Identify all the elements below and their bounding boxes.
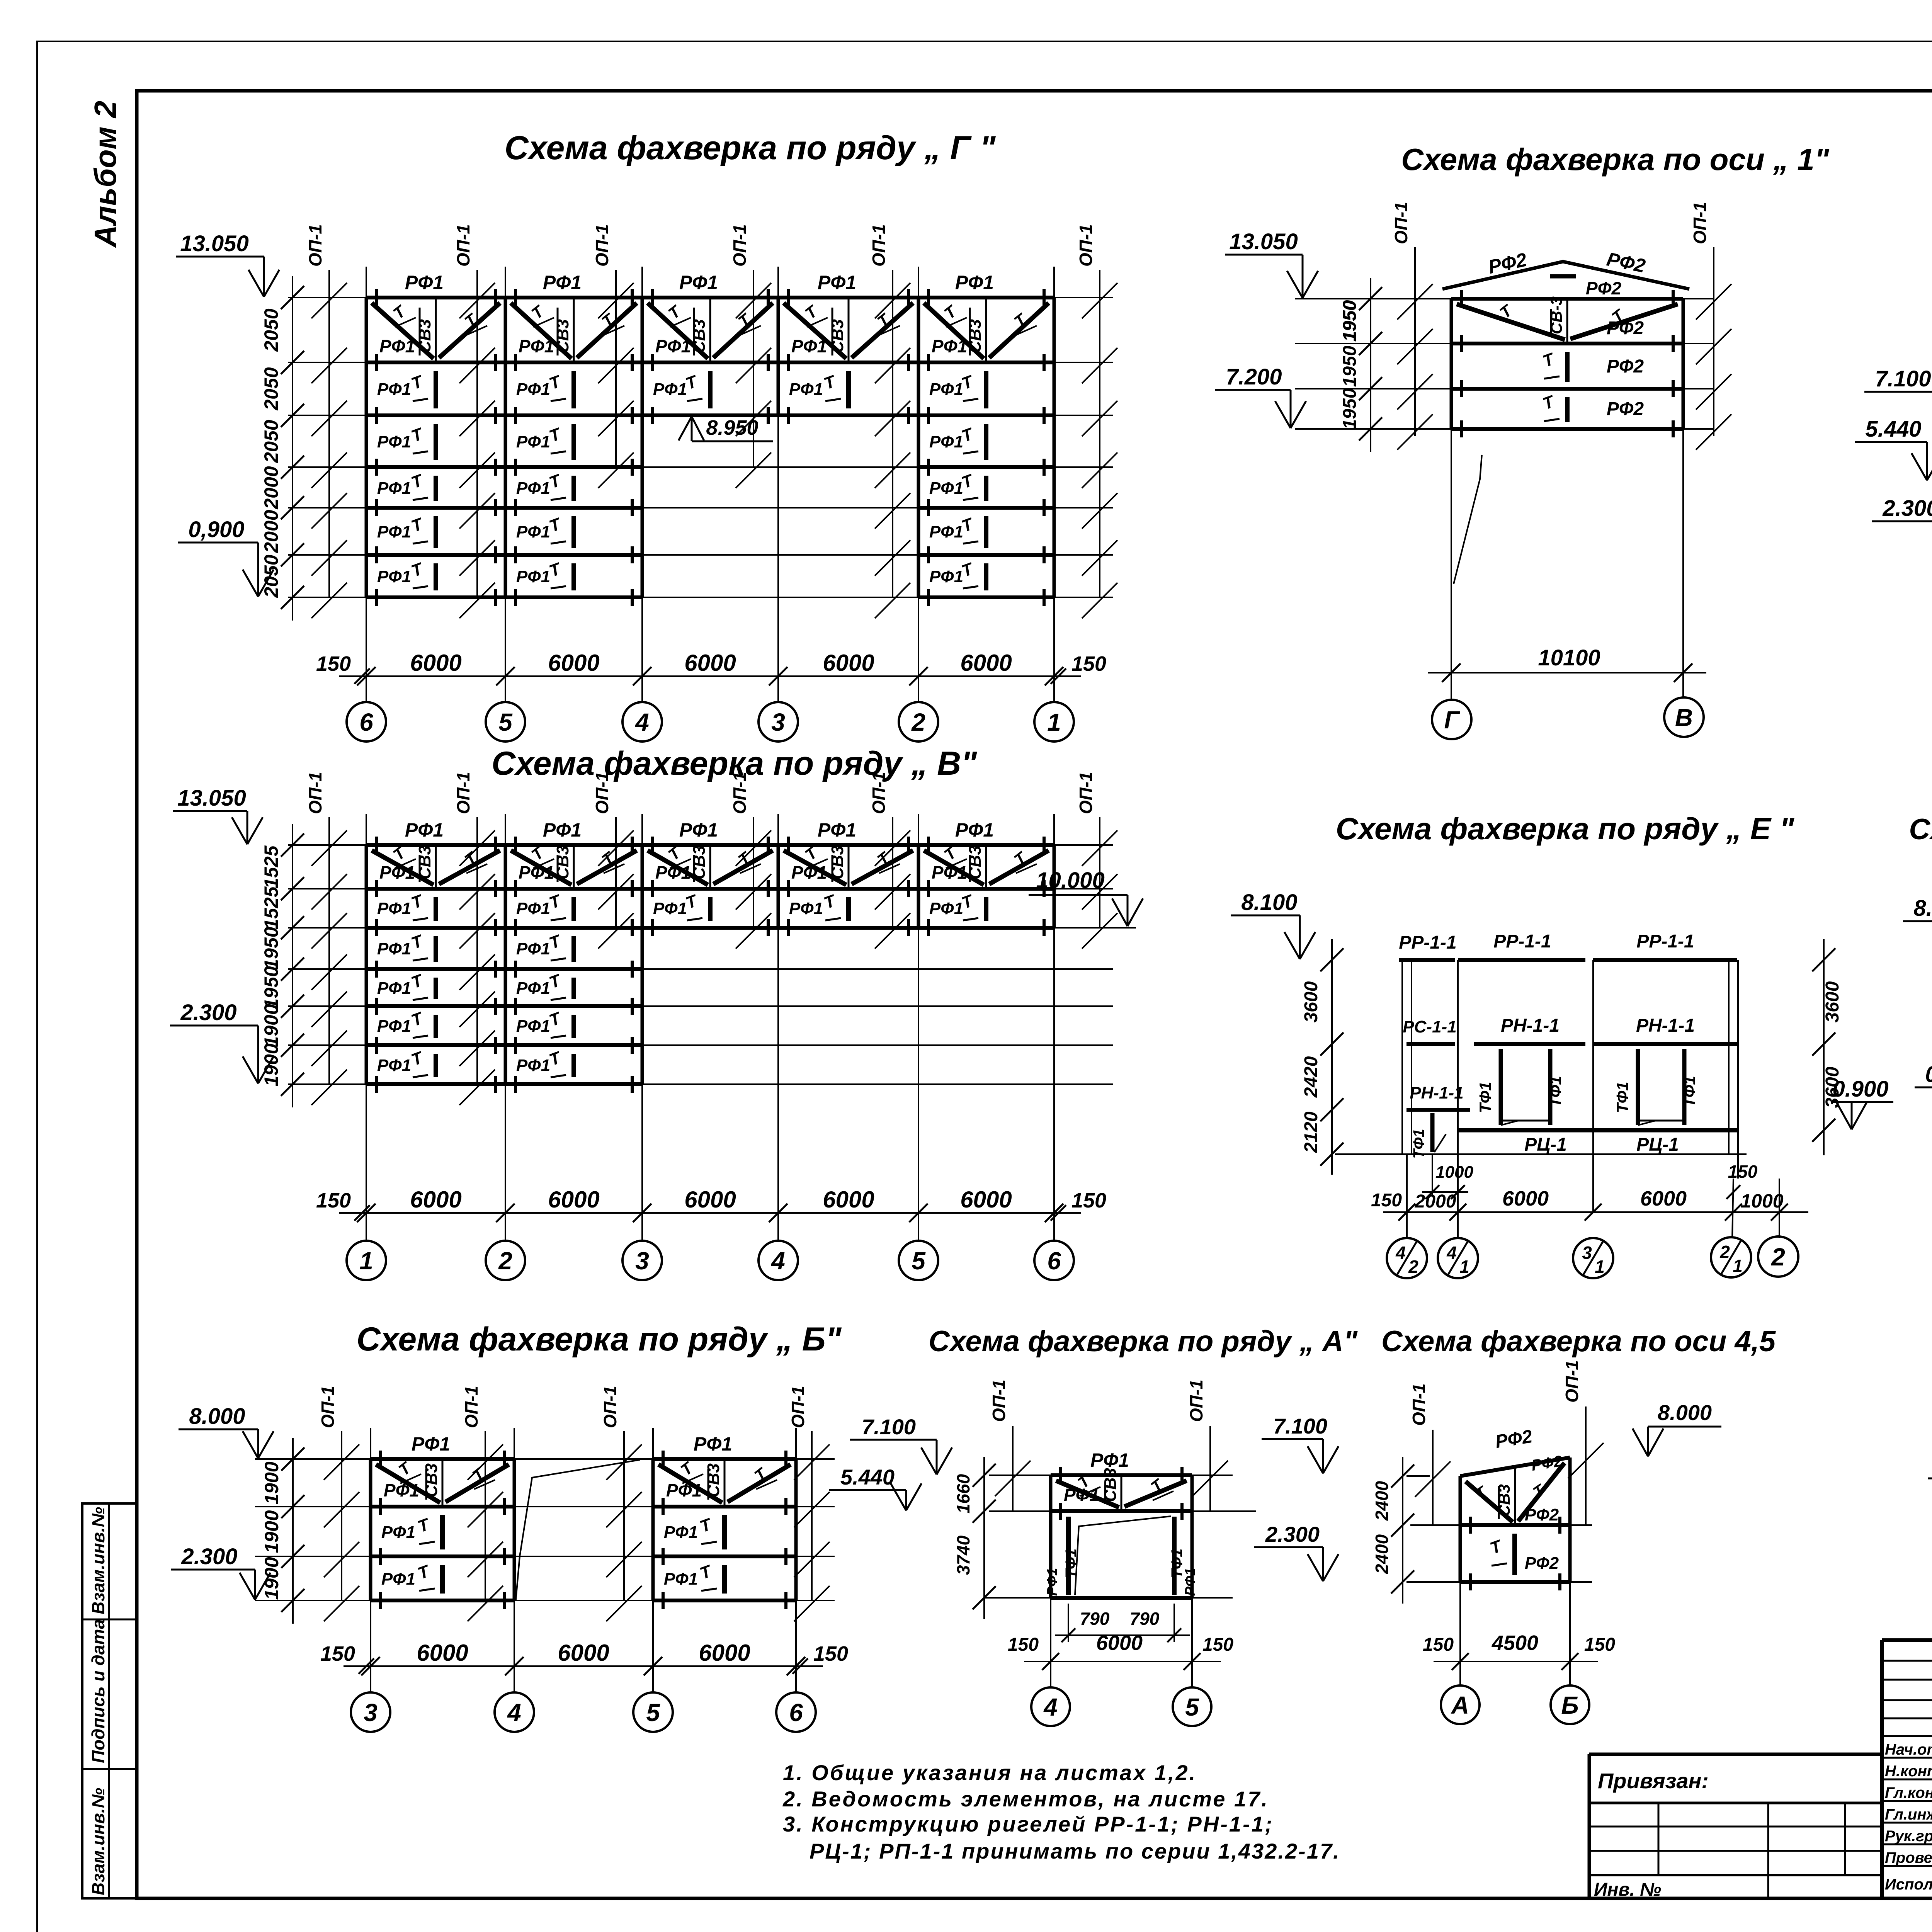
dimension 790 row A — [1068, 1604, 1069, 1642]
node OP-1 column 2 — [476, 270, 478, 597]
svg-text:ОП-1: ОП-1 — [1076, 772, 1096, 814]
svg-text:Взам.инв.№: Взам.инв.№ — [88, 1787, 108, 1895]
svg-text:3600: 3600 — [1822, 1066, 1843, 1108]
node panel bay 6-5 — [365, 298, 368, 597]
svg-text:2120: 2120 — [1301, 1111, 1321, 1153]
wire level lines — [288, 844, 1113, 846]
svg-text:Н.контр.: Н.контр. — [1885, 1763, 1932, 1780]
svg-text:ОП-1: ОП-1 — [461, 1386, 481, 1428]
svg-text:1950: 1950 — [260, 966, 282, 1009]
node panel bay 5-6 — [917, 845, 920, 928]
svg-text:2.300: 2.300 — [180, 1000, 236, 1025]
svg-text:СВ3: СВ3 — [553, 845, 572, 879]
svg-text:РФ1: РФ1 — [653, 899, 687, 918]
svg-text:5: 5 — [498, 708, 513, 736]
node axis 2 — [899, 702, 938, 742]
svg-text:ОП-1: ОП-1 — [453, 224, 473, 267]
svg-text:4: 4 — [1446, 1243, 1457, 1263]
svg-text:1: 1 — [1595, 1257, 1605, 1277]
svg-text:ОП-1: ОП-1 — [305, 224, 325, 267]
dimension bottom line — [339, 675, 1081, 677]
svg-text:Т: Т — [1147, 1475, 1167, 1496]
svg-text:СВ3: СВ3 — [415, 845, 434, 879]
dimension bottom line — [344, 1665, 823, 1667]
svg-text:2050: 2050 — [260, 308, 282, 352]
svg-text:Взам.инв.№: Взам.инв.№ — [88, 1507, 108, 1614]
svg-text:6000: 6000 — [417, 1640, 468, 1666]
node TF1 hangers bay1 — [1499, 1049, 1503, 1125]
svg-text:10.000: 10.000 — [1036, 868, 1104, 893]
svg-text:2000: 2000 — [260, 510, 282, 553]
svg-text:2420: 2420 — [1301, 1056, 1321, 1098]
svg-text:Г: Г — [1444, 706, 1460, 734]
svg-text:5: 5 — [646, 1699, 660, 1726]
svg-text:РФ1: РФ1 — [377, 522, 411, 541]
node OP-1 column 3 — [615, 817, 617, 928]
svg-text:РФ1: РФ1 — [694, 1433, 732, 1455]
node axis 3 — [759, 702, 798, 742]
svg-text:1: 1 — [359, 1247, 373, 1275]
node panel bay 2-3 — [504, 845, 507, 1084]
svg-text:2050: 2050 — [260, 367, 282, 410]
svg-text:РФ1: РФ1 — [377, 432, 411, 451]
svg-text:СВ3: СВ3 — [690, 845, 709, 879]
svg-text:Схема фахверка по оси 4,5: Схема фахверка по оси 4,5 — [1381, 1325, 1776, 1358]
svg-text:РФ1: РФ1 — [655, 862, 691, 883]
dimension left chain — [292, 824, 293, 1107]
svg-text:1900: 1900 — [261, 1510, 282, 1553]
svg-text:РФ1: РФ1 — [929, 432, 963, 451]
svg-text:Т: Т — [461, 848, 481, 869]
dimension left chain — [292, 276, 293, 621]
svg-text:0,900: 0,900 — [188, 517, 244, 542]
node roof RF2 — [1442, 262, 1689, 289]
svg-text:РФ1: РФ1 — [791, 862, 827, 883]
svg-text:РФ1: РФ1 — [384, 1480, 419, 1500]
svg-text:РФ1: РФ1 — [377, 899, 411, 918]
svg-text:РЦ-1: РЦ-1 — [1524, 1134, 1567, 1155]
svg-text:2: 2 — [1408, 1257, 1418, 1277]
svg-text:Схема фахверка по оси 4а: Схема фахверка по оси 4а — [1909, 813, 1932, 846]
svg-text:2050: 2050 — [260, 554, 282, 598]
svg-text:1000: 1000 — [1740, 1190, 1783, 1212]
svg-text:РФ1: РФ1 — [955, 819, 994, 841]
svg-text:РФ1: РФ1 — [381, 1570, 415, 1588]
svg-text:РФ1: РФ1 — [381, 1523, 415, 1542]
node axis 5 — [899, 1241, 938, 1280]
svg-text:РФ1: РФ1 — [405, 819, 444, 841]
node privyazan box — [1589, 1753, 1882, 1756]
svg-text:РР-1-1: РР-1-1 — [1636, 931, 1694, 952]
svg-text:СВ3: СВ3 — [828, 845, 847, 879]
svg-text:1525: 1525 — [260, 845, 282, 888]
node OP-1 column 4 — [753, 270, 754, 467]
svg-text:ТФ1: ТФ1 — [1546, 1076, 1565, 1107]
svg-text:Проверил: Проверил — [1885, 1849, 1932, 1866]
svg-text:4: 4 — [1043, 1693, 1058, 1721]
svg-text:РФ1: РФ1 — [516, 939, 550, 958]
wire level lines — [255, 1458, 835, 1460]
wire axis verticals — [1451, 429, 1452, 699]
node OP-1 column 3 — [623, 1431, 625, 1600]
node beam RC-1 bottom — [1458, 1128, 1737, 1133]
dimension right chain row E — [1823, 939, 1825, 1155]
svg-text:4500: 4500 — [1492, 1631, 1538, 1655]
svg-text:ОП-1: ОП-1 — [318, 1386, 338, 1428]
node axis 3 — [622, 1241, 662, 1280]
svg-text:Т: Т — [874, 848, 894, 869]
svg-text:4: 4 — [634, 708, 649, 736]
svg-text:Гл.инж.пр.: Гл.инж.пр. — [1885, 1806, 1932, 1823]
node panel bay 1-2 — [365, 845, 368, 1084]
svg-text:РФ1: РФ1 — [1044, 1568, 1060, 1596]
node OP-1 column 6 — [1099, 270, 1100, 597]
svg-text:РФ1: РФ1 — [1090, 1449, 1129, 1471]
svg-text:РФ1: РФ1 — [516, 1056, 550, 1075]
svg-text:2. Ведомость элементов, на ли: 2. Ведомость элементов, на листе 17. — [782, 1787, 1269, 1811]
node OP-1 column 1 — [328, 270, 330, 597]
svg-text:13.050: 13.050 — [177, 786, 246, 811]
svg-text:РФ1: РФ1 — [929, 899, 963, 918]
svg-text:7.200: 7.200 — [1226, 364, 1282, 389]
node axis G circle — [1432, 700, 1471, 739]
svg-text:6000: 6000 — [699, 1640, 750, 1666]
svg-text:РЦ-1: РЦ-1 — [1636, 1134, 1679, 1155]
wire break line row A — [1075, 1516, 1171, 1595]
node OP-1 columns axis45 — [1432, 1430, 1434, 1525]
svg-text:ОП-1: ОП-1 — [869, 224, 889, 267]
node panel axis 45 — [1406, 1475, 1430, 1477]
wire axis verticals — [366, 814, 367, 1240]
dimension left chain — [1370, 278, 1371, 452]
svg-text:ТФ1: ТФ1 — [1680, 1076, 1699, 1107]
svg-text:Т: Т — [1540, 392, 1558, 413]
svg-text:6000: 6000 — [823, 650, 874, 676]
svg-text:РФ1: РФ1 — [664, 1570, 698, 1588]
svg-text:Т: Т — [415, 1561, 433, 1583]
svg-text:РФ1: РФ1 — [516, 380, 550, 399]
svg-text:6000: 6000 — [960, 650, 1012, 676]
svg-text:Т: Т — [697, 1515, 715, 1536]
node OP-1 column 1 — [341, 1431, 342, 1600]
svg-text:РФ2: РФ2 — [1525, 1505, 1559, 1524]
node TF1 single — [1430, 1113, 1435, 1152]
svg-text:2: 2 — [1771, 1243, 1785, 1271]
svg-text:3600: 3600 — [1822, 981, 1843, 1022]
svg-text:6000: 6000 — [1502, 1187, 1549, 1210]
svg-text:ОП-1: ОП-1 — [730, 772, 750, 814]
svg-text:РФ1: РФ1 — [516, 479, 550, 498]
svg-text:ОП-1: ОП-1 — [788, 1386, 808, 1428]
svg-text:6000: 6000 — [1640, 1187, 1687, 1210]
svg-text:Подпись и дата: Подпись и дата — [88, 1619, 108, 1763]
svg-text:150: 150 — [1071, 1189, 1106, 1212]
svg-text:2400: 2400 — [1372, 1481, 1392, 1521]
svg-text:3: 3 — [1582, 1243, 1592, 1263]
dimension bottom row A — [1050, 1598, 1051, 1687]
svg-text:РФ1: РФ1 — [379, 336, 415, 356]
svg-text:1: 1 — [1047, 708, 1061, 736]
svg-text:РФ1: РФ1 — [679, 819, 718, 841]
node axis B circle — [1551, 1685, 1589, 1724]
node axis 5 circle — [1173, 1687, 1211, 1726]
svg-text:4: 4 — [507, 1699, 521, 1726]
node axis 4 circle — [1031, 1687, 1070, 1726]
svg-text:РФ1: РФ1 — [543, 819, 582, 841]
svg-text:1900: 1900 — [260, 1043, 282, 1086]
node OP-1 column 3 — [615, 270, 617, 467]
svg-text:1900: 1900 — [261, 1461, 282, 1504]
svg-text:Схема фахверка по ряду „ Г ": Схема фахверка по ряду „ Г " — [505, 129, 996, 167]
svg-text:РФ1: РФ1 — [1064, 1485, 1099, 1505]
node axis 5 — [633, 1692, 673, 1732]
svg-text:ОП-1: ОП-1 — [1690, 202, 1710, 244]
svg-text:150: 150 — [1423, 1634, 1454, 1655]
wire break line axis1 — [1454, 455, 1482, 584]
svg-text:РР-1-1: РР-1-1 — [1493, 931, 1551, 952]
svg-text:Т: Т — [409, 971, 426, 992]
svg-text:Б: Б — [1561, 1691, 1578, 1719]
svg-text:6000: 6000 — [548, 650, 599, 676]
svg-text:РФ2: РФ2 — [1607, 356, 1644, 377]
svg-text:150: 150 — [1371, 1190, 1402, 1211]
svg-text:РФ1: РФ1 — [405, 272, 444, 293]
svg-text:А: А — [1451, 1691, 1469, 1719]
svg-text:ОП-1: ОП-1 — [1409, 1383, 1429, 1426]
svg-text:СВ3: СВ3 — [1101, 1468, 1120, 1502]
svg-text:РФ1: РФ1 — [377, 939, 411, 958]
svg-text:Т: Т — [409, 424, 426, 446]
svg-text:790: 790 — [1130, 1609, 1160, 1629]
svg-text:150: 150 — [1202, 1634, 1233, 1655]
svg-text:Схема фахверка по ряду „ Е: Схема фахверка по ряду „ Е " — [1336, 811, 1794, 846]
node TF1 hangers bay2 — [1636, 1049, 1640, 1125]
svg-text:1950: 1950 — [1340, 345, 1360, 387]
svg-text:РН-1-1: РН-1-1 — [1501, 1015, 1560, 1036]
svg-text:2.300: 2.300 — [181, 1544, 237, 1569]
svg-text:6000: 6000 — [548, 1187, 599, 1213]
svg-text:13.050: 13.050 — [180, 231, 248, 256]
svg-text:Схема фахверка по ряду „ А": Схема фахверка по ряду „ А" — [929, 1325, 1358, 1358]
svg-text:Т: Т — [1488, 1536, 1505, 1558]
svg-text:6000: 6000 — [684, 650, 736, 676]
node axis 4 — [495, 1692, 534, 1732]
node OP-1 column 5 — [892, 817, 893, 928]
svg-text:РФ1: РФ1 — [818, 819, 856, 841]
svg-text:СВ3: СВ3 — [966, 845, 985, 879]
svg-text:1: 1 — [1459, 1257, 1469, 1277]
dimension bottom axis45 — [1459, 1582, 1461, 1685]
node beams level2 — [1406, 1042, 1455, 1046]
node panel bay 2-1 — [917, 298, 920, 597]
svg-text:ОП-1: ОП-1 — [600, 1386, 620, 1428]
svg-text:Схема фахверка по оси „ 1": Схема фахверка по оси „ 1" — [1401, 142, 1829, 177]
svg-text:Исполнил: Исполнил — [1885, 1876, 1932, 1893]
node left stamp column — [82, 1503, 137, 1898]
svg-text:РР-1-1: РР-1-1 — [1399, 932, 1456, 953]
node OP-1 column 1 — [328, 817, 330, 1084]
svg-text:РФ1: РФ1 — [789, 380, 823, 399]
svg-text:ОП-1: ОП-1 — [592, 224, 612, 267]
dimension left chain axis45 — [1402, 1457, 1403, 1604]
svg-text:1525: 1525 — [260, 886, 282, 929]
svg-text:Т: Т — [821, 891, 839, 913]
svg-text:СВ3: СВ3 — [966, 319, 985, 353]
svg-text:РФ1: РФ1 — [666, 1480, 702, 1500]
svg-text:СВ-3: СВ-3 — [1547, 296, 1565, 334]
svg-text:РЦ-1; РП-1-1 принимать по сери: РЦ-1; РП-1-1 принимать по серии 1,432.2-… — [810, 1839, 1340, 1863]
svg-text:СВ3: СВ3 — [553, 319, 572, 353]
svg-text:6000: 6000 — [960, 1187, 1012, 1213]
svg-text:1. Общие указания на листах: 1. Общие указания на листах 1,2. — [783, 1760, 1197, 1785]
svg-text:РФ1: РФ1 — [519, 336, 554, 356]
node panel axis1 — [1450, 299, 1453, 429]
node panel bay 5-4 — [504, 298, 507, 597]
dimension left chain row E — [1331, 939, 1333, 1175]
svg-text:РФ1: РФ1 — [791, 336, 827, 356]
node OP-1 columns row A — [1012, 1426, 1014, 1511]
node TF1 posts row A — [1066, 1517, 1071, 1595]
svg-text:РФ2: РФ2 — [1607, 318, 1644, 338]
svg-text:РФ1: РФ1 — [377, 567, 411, 586]
svg-text:ТФ1: ТФ1 — [1476, 1082, 1494, 1113]
node panel bay 3-4 — [641, 845, 644, 928]
svg-text:РН-1-1: РН-1-1 — [1410, 1083, 1463, 1102]
svg-text:РФ2: РФ2 — [1607, 399, 1644, 419]
svg-text:5: 5 — [1185, 1693, 1199, 1721]
svg-text:ОП-1: ОП-1 — [1562, 1360, 1582, 1403]
wire axis verticals — [370, 1428, 371, 1692]
svg-text:5.440: 5.440 — [840, 1465, 895, 1489]
node axis 5 — [486, 702, 525, 742]
svg-text:150: 150 — [1071, 652, 1106, 675]
svg-text:РФ2: РФ2 — [1494, 1426, 1534, 1452]
svg-text:3: 3 — [364, 1699, 378, 1726]
svg-text:Т: Т — [409, 1048, 426, 1070]
svg-text:150: 150 — [813, 1642, 848, 1665]
svg-text:РФ1: РФ1 — [377, 380, 411, 399]
node axis 4 — [622, 702, 662, 742]
dimension bottom line — [339, 1212, 1081, 1214]
svg-text:СВ3: СВ3 — [690, 319, 709, 353]
svg-text:2.300: 2.300 — [1882, 496, 1932, 521]
svg-text:Рук.груп.: Рук.груп. — [1885, 1828, 1932, 1845]
svg-text:ОП-1: ОП-1 — [1391, 202, 1411, 244]
svg-text:РФ1: РФ1 — [516, 899, 550, 918]
svg-text:СВ3: СВ3 — [415, 319, 434, 353]
svg-text:ОП-1: ОП-1 — [730, 224, 750, 267]
svg-text:2.300: 2.300 — [1265, 1522, 1320, 1546]
node OP-1 column 4 — [753, 817, 754, 928]
svg-text:Т: Т — [821, 372, 839, 393]
svg-text:1950: 1950 — [1340, 300, 1360, 341]
node title block — [1882, 1638, 1932, 1642]
svg-text:РФ1: РФ1 — [932, 336, 967, 356]
node axis 3 — [351, 1692, 390, 1732]
svg-text:6000: 6000 — [1096, 1631, 1143, 1655]
svg-text:3600: 3600 — [1301, 981, 1321, 1022]
svg-text:1950: 1950 — [1340, 388, 1360, 429]
wire break line row B — [516, 1460, 640, 1600]
svg-text:Т: Т — [1010, 848, 1031, 869]
svg-text:150: 150 — [320, 1642, 355, 1665]
svg-text:Т: Т — [409, 514, 426, 536]
svg-text:6000: 6000 — [410, 1187, 461, 1213]
svg-text:РФ1: РФ1 — [1182, 1568, 1198, 1596]
svg-text:РФ1: РФ1 — [543, 272, 582, 293]
svg-text:1: 1 — [1733, 1256, 1743, 1276]
svg-text:0,900: 0,900 — [1925, 1062, 1932, 1087]
node OP-1 column left — [1414, 247, 1416, 436]
node OP-1 column 2 — [485, 1431, 486, 1600]
svg-text:РФ1: РФ1 — [516, 1017, 550, 1036]
svg-text:РФ1: РФ1 — [379, 862, 415, 883]
svg-text:6000: 6000 — [558, 1640, 609, 1666]
svg-text:СВ3: СВ3 — [704, 1463, 723, 1497]
wire level lines — [288, 297, 1113, 298]
svg-text:РН-1-1: РН-1-1 — [1636, 1015, 1695, 1036]
node panel bay 4-3 — [641, 298, 644, 415]
svg-text:8.000: 8.000 — [1658, 1400, 1712, 1425]
svg-text:Т: Т — [409, 559, 426, 581]
svg-text:РФ1: РФ1 — [516, 979, 550, 998]
node axis V circle — [1664, 697, 1704, 737]
svg-text:РФ1: РФ1 — [655, 336, 691, 356]
svg-text:Т: Т — [409, 372, 426, 393]
svg-text:ОП-1: ОП-1 — [1186, 1379, 1206, 1422]
node beams RR-1-1 — [1399, 958, 1455, 962]
svg-text:1660: 1660 — [953, 1474, 973, 1514]
svg-text:ОП-1: ОП-1 — [989, 1379, 1009, 1422]
svg-text:РФ2: РФ2 — [1486, 249, 1529, 278]
node panel bay 4-5 — [777, 845, 780, 928]
svg-text:Альбом 2: Альбом 2 — [88, 101, 122, 248]
svg-text:Схема фахверка по ряду „ Б": Схема фахверка по ряду „ Б" — [357, 1321, 842, 1358]
svg-text:150: 150 — [316, 652, 351, 675]
svg-text:13.050: 13.050 — [1229, 229, 1298, 254]
svg-text:1900: 1900 — [260, 1004, 282, 1047]
svg-text:1000: 1000 — [1435, 1163, 1473, 1182]
svg-text:РФ1: РФ1 — [377, 1056, 411, 1075]
svg-text:150: 150 — [1584, 1634, 1615, 1655]
svg-text:3. Конструкцию ригелей РР-1-: 3. Конструкцию ригелей РР-1-1; РН-1-1; — [783, 1812, 1274, 1836]
node beam RN-1-1 low — [1406, 1108, 1470, 1112]
svg-text:Гл.констр.: Гл.констр. — [1885, 1784, 1932, 1801]
svg-text:ТФ1: ТФ1 — [1613, 1082, 1631, 1113]
svg-text:РФ1: РФ1 — [679, 272, 718, 293]
svg-text:8.100: 8.100 — [1913, 896, 1932, 921]
svg-text:Т: Т — [409, 471, 426, 492]
node OP-1 column right — [1713, 247, 1714, 436]
svg-text:Т: Т — [1540, 349, 1558, 371]
svg-text:ОП-1: ОП-1 — [453, 772, 473, 814]
dimension left chain — [292, 1438, 294, 1624]
svg-text:Т: Т — [415, 1515, 433, 1536]
node axis 1 — [1034, 702, 1074, 742]
svg-text:РФ1: РФ1 — [929, 479, 963, 498]
svg-text:6000: 6000 — [684, 1187, 736, 1213]
svg-text:2400: 2400 — [1372, 1534, 1392, 1574]
svg-text:РФ1: РФ1 — [929, 567, 963, 586]
svg-text:В: В — [1675, 704, 1693, 731]
node axis 4 — [759, 1241, 798, 1280]
svg-text:4: 4 — [770, 1247, 785, 1275]
svg-text:ТФ1: ТФ1 — [1410, 1129, 1427, 1158]
svg-text:2: 2 — [911, 708, 925, 736]
node OP-1 column 4 — [811, 1431, 813, 1600]
svg-text:Т: Т — [409, 891, 426, 913]
svg-text:Т: Т — [409, 931, 426, 953]
